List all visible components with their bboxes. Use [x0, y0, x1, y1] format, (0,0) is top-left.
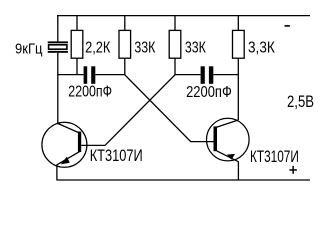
svg-text:2,2К: 2,2К	[85, 40, 111, 57]
svg-text:33К: 33К	[185, 40, 207, 57]
svg-text:2,5В: 2,5В	[287, 92, 314, 111]
svg-text:3,3К: 3,3К	[248, 40, 275, 57]
svg-text:33К: 33К	[134, 40, 156, 57]
svg-text:2200пФ: 2200пФ	[68, 84, 112, 101]
svg-text:КТ3107И: КТ3107И	[90, 146, 143, 165]
svg-text:КТ3107И: КТ3107И	[250, 147, 299, 166]
svg-text:9кГц: 9кГц	[15, 40, 43, 57]
svg-text:2200пФ: 2200пФ	[186, 84, 232, 101]
